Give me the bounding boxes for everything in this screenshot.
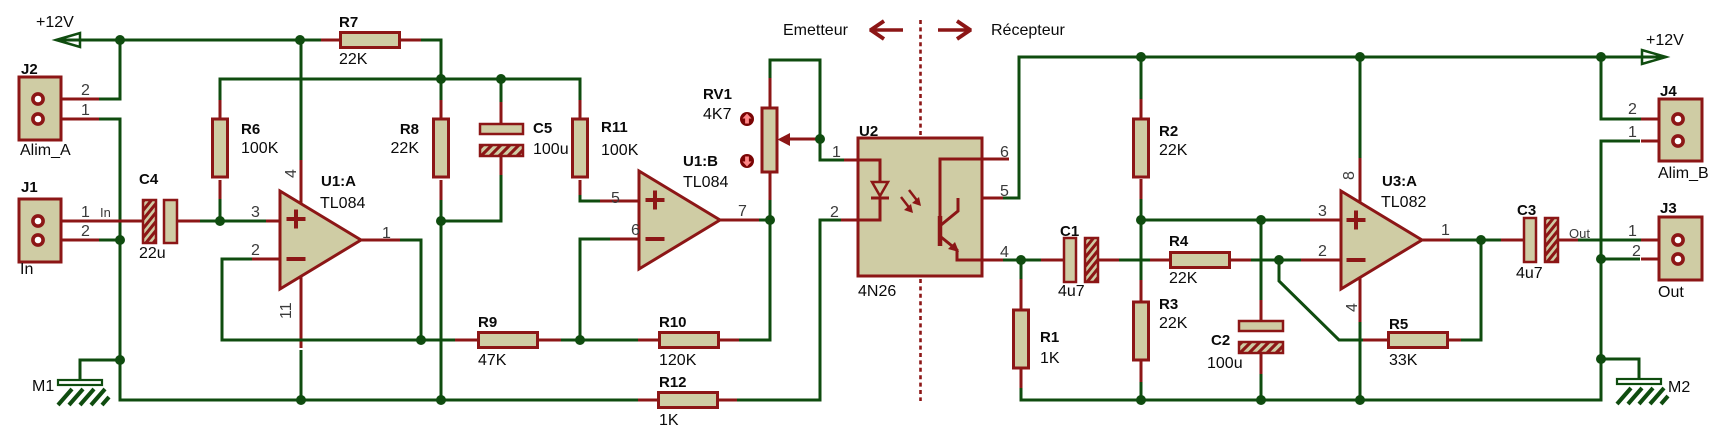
svg-text:R10: R10 [659, 314, 687, 331]
svg-text:1: 1 [81, 204, 90, 221]
svg-text:2: 2 [81, 223, 90, 240]
svg-text:3: 3 [1318, 203, 1327, 220]
svg-text:1: 1 [832, 144, 841, 161]
svg-text:R12: R12 [659, 374, 687, 391]
svg-text:C5: C5 [533, 120, 552, 137]
svg-text:1: 1 [1441, 222, 1450, 239]
svg-text:Out: Out [1658, 284, 1684, 301]
svg-text:R11: R11 [601, 119, 628, 136]
svg-text:C4: C4 [139, 171, 159, 188]
svg-text:4u7: 4u7 [1516, 265, 1543, 282]
svg-text:U3:A: U3:A [1382, 173, 1417, 190]
svg-text:100K: 100K [601, 142, 639, 159]
svg-text:2: 2 [1628, 101, 1637, 118]
svg-text:22K: 22K [1159, 315, 1188, 332]
svg-text:R7: R7 [339, 14, 358, 31]
svg-text:2: 2 [1318, 243, 1327, 260]
svg-text:R1: R1 [1040, 329, 1059, 346]
svg-text:R8: R8 [400, 121, 419, 138]
svg-text:Récepteur: Récepteur [991, 22, 1065, 39]
svg-text:J1: J1 [21, 179, 38, 196]
svg-text:3: 3 [251, 204, 260, 221]
svg-text:+12V: +12V [1646, 32, 1684, 49]
svg-text:22u: 22u [139, 245, 166, 262]
svg-text:J3: J3 [1660, 200, 1677, 217]
svg-text:R4: R4 [1169, 233, 1189, 250]
svg-text:J2: J2 [21, 61, 38, 78]
svg-text:120K: 120K [659, 352, 697, 369]
svg-text:22K: 22K [1169, 270, 1198, 287]
svg-text:22K: 22K [391, 140, 420, 157]
svg-text:100u: 100u [1207, 355, 1243, 372]
svg-text:2: 2 [1632, 243, 1641, 260]
svg-text:J4: J4 [1660, 83, 1677, 100]
svg-text:R3: R3 [1159, 296, 1178, 313]
svg-text:U1:A: U1:A [321, 173, 356, 190]
svg-text:8: 8 [1341, 171, 1358, 180]
svg-text:Alim_A: Alim_A [20, 142, 71, 159]
svg-text:C3: C3 [1517, 202, 1536, 219]
svg-text:5: 5 [1000, 183, 1009, 200]
svg-text:TL082: TL082 [1381, 194, 1426, 211]
svg-text:4: 4 [283, 169, 300, 178]
svg-text:7: 7 [738, 203, 747, 220]
svg-text:TL084: TL084 [320, 195, 365, 212]
svg-text:22K: 22K [339, 51, 368, 68]
svg-text:1K: 1K [659, 412, 679, 429]
svg-text:U2: U2 [859, 123, 878, 140]
svg-text:1K: 1K [1040, 350, 1060, 367]
svg-text:In: In [100, 205, 111, 220]
svg-text:100K: 100K [241, 140, 279, 157]
svg-text:4: 4 [1344, 303, 1361, 312]
svg-text:4K7: 4K7 [703, 106, 732, 123]
svg-text:5: 5 [611, 190, 620, 207]
svg-text:2: 2 [830, 204, 839, 221]
svg-text:R5: R5 [1389, 316, 1408, 333]
svg-text:R6: R6 [241, 121, 260, 138]
svg-text:33K: 33K [1389, 352, 1418, 369]
svg-text:+12V: +12V [36, 14, 74, 31]
svg-text:M2: M2 [1668, 379, 1690, 396]
svg-text:6: 6 [631, 222, 640, 239]
svg-text:47K: 47K [478, 352, 507, 369]
svg-text:6: 6 [1000, 144, 1009, 161]
svg-text:TL084: TL084 [683, 174, 728, 191]
svg-text:2: 2 [81, 82, 90, 99]
svg-text:22K: 22K [1159, 142, 1188, 159]
svg-text:1: 1 [81, 102, 90, 119]
svg-text:In: In [20, 261, 33, 278]
svg-text:1: 1 [1628, 223, 1637, 240]
svg-text:1: 1 [382, 225, 391, 242]
svg-text:4: 4 [1000, 244, 1009, 261]
svg-text:C1: C1 [1060, 223, 1079, 240]
svg-text:M1: M1 [32, 378, 54, 395]
svg-text:2: 2 [251, 242, 260, 259]
svg-text:1: 1 [1628, 124, 1637, 141]
svg-text:R2: R2 [1159, 123, 1178, 140]
svg-text:R9: R9 [478, 314, 497, 331]
svg-text:C2: C2 [1211, 332, 1230, 349]
svg-text:Out: Out [1569, 226, 1590, 241]
svg-text:U1:B: U1:B [683, 153, 718, 170]
svg-text:RV1: RV1 [703, 86, 732, 103]
svg-text:4u7: 4u7 [1058, 283, 1085, 300]
svg-text:4N26: 4N26 [858, 283, 896, 300]
svg-text:11: 11 [278, 302, 295, 319]
svg-text:Emetteur: Emetteur [783, 22, 849, 39]
svg-text:100u: 100u [533, 141, 569, 158]
svg-text:Alim_B: Alim_B [1658, 165, 1709, 182]
